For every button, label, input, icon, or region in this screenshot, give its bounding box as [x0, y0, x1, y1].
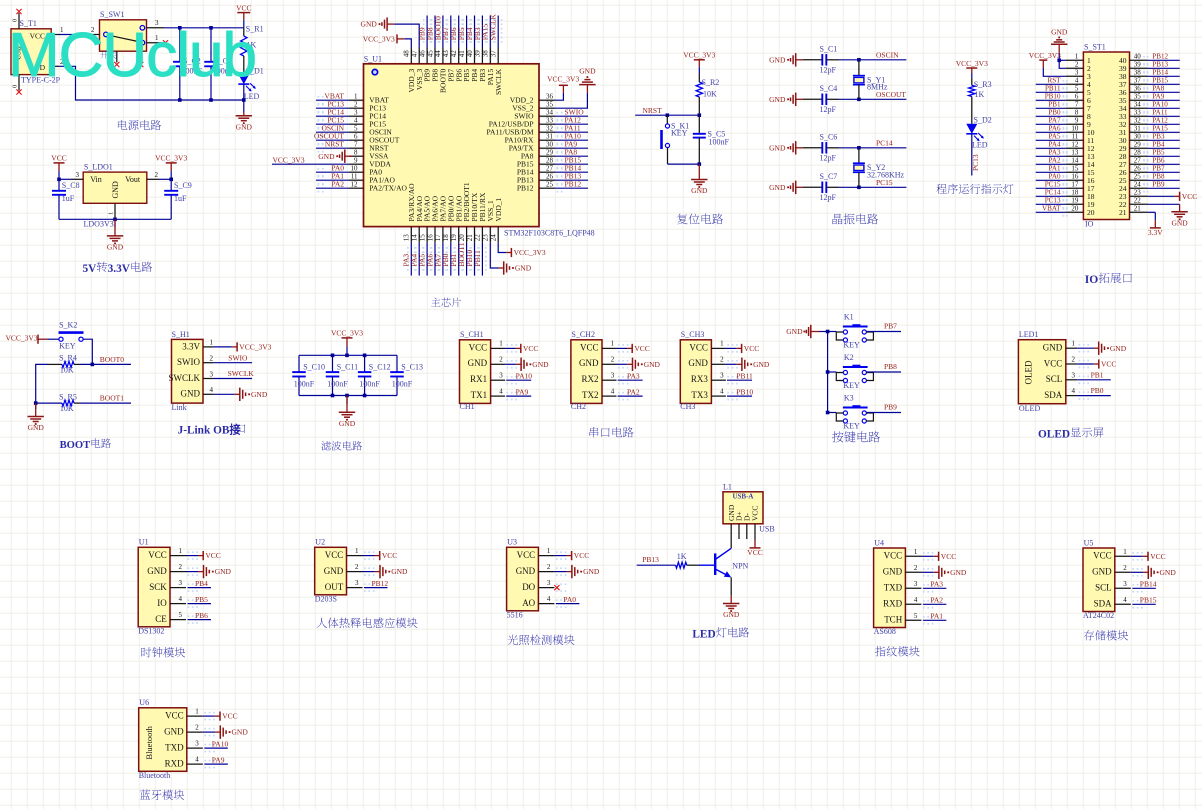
svg-text:S_CH1: S_CH1 — [460, 330, 484, 339]
ST1 pin 23 — [1119, 189, 1148, 202]
wire — [923, 619, 947, 621]
LED S_D1 — [238, 67, 263, 101]
svg-text:PB11: PB11 — [1045, 85, 1061, 93]
svg-text:PA3: PA3 — [930, 580, 943, 589]
wire — [213, 393, 234, 395]
LED S_D2 — [966, 115, 991, 149]
svg-text:VCC_3V3: VCC_3V3 — [273, 156, 305, 165]
wire — [316, 187, 349, 189]
svg-text:RX3: RX3 — [691, 374, 709, 384]
module U1 DS1302 — [138, 538, 170, 636]
wire — [726, 347, 737, 349]
svg-text:PB7: PB7 — [1152, 165, 1165, 173]
svg-text:2: 2 — [195, 724, 199, 732]
crystal S_Y1 8MHz — [853, 60, 888, 100]
svg-text:3: 3 — [720, 372, 724, 380]
svg-text:CH2: CH2 — [571, 402, 586, 411]
resistor S_R1 1K — [241, 25, 264, 75]
wire — [186, 555, 198, 557]
svg-text:U5: U5 — [1084, 538, 1094, 547]
svg-text:PA11: PA11 — [1152, 109, 1168, 117]
svg-text:34: 34 — [1134, 101, 1142, 109]
wire — [410, 243, 412, 276]
svg-text:4: 4 — [195, 756, 199, 764]
svg-text:GND: GND — [769, 55, 786, 64]
svg-text:U4: U4 — [874, 538, 884, 547]
wire — [426, 243, 428, 276]
U1 pin 31 PA10/RX — [505, 132, 555, 144]
U1 pin 30 PA9/TX — [509, 140, 555, 152]
wire — [1036, 211, 1066, 213]
svg-text:6: 6 — [354, 132, 358, 140]
svg-text:GND: GND — [1092, 567, 1112, 577]
svg-text:PB5: PB5 — [195, 595, 208, 604]
title 复位电路 — [677, 214, 687, 225]
capacitor S_C8 1uF — [52, 179, 80, 219]
svg-text:3: 3 — [195, 740, 199, 748]
svg-text:K3: K3 — [844, 394, 854, 403]
power VCC — [747, 541, 762, 557]
U3 pin 1 VCC — [538, 547, 566, 560]
svg-text:GND: GND — [583, 567, 600, 576]
ST1 pin 40 — [1119, 53, 1148, 66]
svg-text:4: 4 — [179, 595, 183, 603]
svg-text:S_C8: S_C8 — [62, 181, 80, 190]
U1 pin 45 PB8 — [426, 48, 439, 82]
wire key to cap bottom — [668, 163, 700, 165]
IC S_U1 STM32F103C8T6_LQFP48 — [364, 55, 595, 238]
svg-text:SWCLK: SWCLK — [489, 13, 498, 40]
U1 pin 35 VSS_2 — [512, 100, 555, 112]
svg-text:U3: U3 — [507, 538, 517, 547]
svg-text:PB13: PB13 — [642, 555, 659, 564]
svg-text:GND: GND — [1110, 344, 1127, 353]
svg-text:1: 1 — [1123, 548, 1127, 556]
svg-text:22: 22 — [474, 234, 482, 242]
svg-text:34: 34 — [546, 108, 554, 116]
svg-text:2: 2 — [355, 563, 359, 571]
wire — [820, 331, 828, 333]
svg-text:PB10: PB10 — [1045, 93, 1061, 101]
junction — [242, 98, 246, 102]
no connect — [554, 585, 559, 590]
power VCC_3V3 — [155, 154, 187, 180]
svg-text:GND: GND — [318, 152, 335, 161]
svg-text:3: 3 — [1075, 69, 1079, 77]
svg-text:12pF: 12pF — [820, 66, 837, 75]
svg-text:27: 27 — [546, 164, 554, 172]
junction — [826, 330, 830, 334]
power VCC_3V3 — [547, 74, 579, 92]
svg-text:4: 4 — [611, 387, 615, 395]
svg-text:VCC_3V3: VCC_3V3 — [155, 154, 187, 163]
pushbutton K2 KEY — [836, 353, 873, 390]
svg-text:44: 44 — [434, 50, 442, 58]
U1 pin 21 PB10/TX — [466, 192, 479, 242]
wire — [828, 331, 837, 333]
power VCC — [1174, 192, 1197, 201]
wire ground rail — [59, 66, 244, 100]
wire left trunk — [36, 364, 48, 403]
svg-text:VCC_3V3: VCC_3V3 — [547, 74, 579, 83]
svg-text:26: 26 — [546, 172, 554, 180]
svg-text:PB0: PB0 — [1091, 386, 1104, 395]
H1 pin 1 — [203, 339, 214, 347]
wire — [418, 243, 420, 276]
svg-text:29: 29 — [1134, 141, 1142, 149]
junction — [666, 113, 670, 117]
wire — [921, 555, 933, 557]
svg-text:VCC_3V3: VCC_3V3 — [363, 34, 395, 43]
svg-text:PB15: PB15 — [1140, 596, 1157, 605]
junction — [857, 146, 861, 150]
U4 pin 2 GND — [905, 564, 933, 577]
svg-text:GND: GND — [688, 358, 708, 368]
wire BOOT1 — [80, 402, 131, 404]
svg-text:VCC: VCC — [747, 548, 762, 557]
svg-text:41: 41 — [458, 50, 466, 58]
ground — [516, 358, 549, 371]
display LED1 OLED — [1018, 330, 1065, 413]
ST1 pin 25 — [1119, 173, 1148, 186]
wire — [1036, 123, 1066, 125]
svg-text:L1: L1 — [723, 482, 732, 491]
power VCC_3V3 — [506, 248, 546, 257]
LDO pin 3 — [71, 171, 83, 179]
svg-text:12pF: 12pF — [820, 105, 837, 114]
wire top rail — [299, 354, 397, 356]
ST1 pin 13 — [1066, 149, 1095, 162]
module U6 Bluetooth — [139, 698, 187, 780]
svg-text:Link: Link — [172, 403, 187, 412]
svg-text:Bluetooth: Bluetooth — [144, 725, 154, 759]
power VCC — [215, 712, 238, 721]
svg-text:S_H1: S_H1 — [172, 330, 190, 339]
wire — [839, 186, 906, 188]
svg-text:AS608: AS608 — [874, 627, 896, 636]
wire — [1036, 179, 1066, 181]
svg-text:GND: GND — [147, 566, 167, 576]
svg-text:STM32F103C8T6_LQFP48: STM32F103C8T6_LQFP48 — [504, 229, 595, 238]
svg-text:PA9: PA9 — [516, 387, 529, 396]
svg-text:S_U1: S_U1 — [364, 55, 382, 64]
svg-text:PA9: PA9 — [212, 755, 225, 764]
ground — [567, 565, 600, 578]
U1 pin 23 VSS_1 — [482, 200, 495, 243]
svg-text:VCC: VCC — [222, 712, 237, 721]
S_CH1 pin 4 — [491, 387, 517, 400]
svg-text:2: 2 — [1075, 61, 1079, 69]
svg-text:30: 30 — [1134, 133, 1142, 141]
ST1 pin 19 — [1066, 197, 1095, 210]
wire — [450, 16, 452, 48]
svg-text:9: 9 — [354, 156, 358, 164]
svg-text:23: 23 — [482, 234, 490, 242]
svg-text:40: 40 — [1134, 53, 1142, 61]
connector S_T1 TYPE-C-2P — [11, 19, 61, 85]
junction — [698, 113, 702, 117]
svg-text:VCC_3V3: VCC_3V3 — [956, 59, 988, 68]
title 电源电路 — [118, 120, 127, 130]
ground — [786, 325, 819, 338]
S_CH1 pin 2 — [491, 356, 517, 369]
H1 pin 4 — [203, 386, 214, 394]
svg-text:25: 25 — [546, 180, 554, 188]
svg-text:LDO3V3: LDO3V3 — [84, 219, 114, 228]
svg-text:24: 24 — [490, 234, 498, 242]
svg-text:CH1: CH1 — [460, 402, 475, 411]
resistor S_R2 10K — [696, 74, 719, 115]
U1 pin 24 VDD_1 — [490, 198, 503, 243]
wire — [1148, 147, 1180, 149]
wire T1 pin1 to SW1 — [59, 34, 84, 36]
connector S_CH2 — [571, 330, 602, 411]
ST1 pin 3 — [1066, 69, 1091, 82]
U1 pin 2 GND — [170, 563, 198, 576]
svg-text:GND: GND — [579, 67, 596, 76]
junction — [209, 98, 213, 102]
wire — [1036, 171, 1066, 173]
capacitor S_C7 12pF — [803, 172, 839, 202]
svg-text:MCUclub: MCUclub — [8, 21, 256, 90]
wire — [618, 395, 643, 397]
U5 pin 4 SDA — [1115, 596, 1143, 609]
wire — [474, 16, 476, 48]
svg-text:48: 48 — [403, 50, 411, 58]
wire — [1148, 171, 1180, 173]
svg-text:11: 11 — [351, 172, 358, 180]
svg-text:27: 27 — [1134, 157, 1142, 165]
svg-text:1: 1 — [1075, 53, 1079, 61]
svg-text:1: 1 — [914, 548, 918, 556]
ground — [361, 17, 395, 30]
svg-text:S_C9: S_C9 — [174, 181, 192, 190]
U1 pin 4 IO — [170, 595, 198, 608]
wire — [203, 731, 215, 733]
ST1 pin 15 — [1066, 165, 1095, 178]
U1 pin 29 PA8 — [521, 148, 555, 160]
wire — [555, 115, 588, 117]
junction — [363, 354, 367, 358]
svg-text:33: 33 — [1134, 109, 1142, 117]
capacitor S_C1 12pF — [803, 45, 839, 75]
wire — [726, 363, 737, 365]
svg-text:AT24C02: AT24C02 — [1083, 611, 1114, 620]
ST1 pin 26 — [1119, 165, 1148, 178]
wire — [434, 243, 436, 276]
U1 pin 47 VSS_3 — [411, 48, 424, 91]
svg-text:5: 5 — [914, 612, 918, 620]
svg-text:PA8: PA8 — [1152, 85, 1164, 93]
power VCC — [627, 344, 650, 353]
connector S_CH3 — [680, 330, 711, 411]
U1 pin 20 PB2/BOOT1 — [458, 182, 471, 243]
wire — [839, 147, 906, 149]
T1 pin 0 top (unused) — [12, 9, 22, 29]
wire — [1148, 91, 1180, 93]
L1 pin GND — [730, 524, 732, 549]
svg-text:8: 8 — [354, 148, 358, 156]
U1 pin 9 VDDA — [349, 156, 392, 168]
svg-text:TX2: TX2 — [582, 390, 599, 400]
svg-text:DS1302: DS1302 — [138, 626, 164, 635]
svg-text:VCC_3V3: VCC_3V3 — [1029, 51, 1061, 60]
wire — [442, 16, 444, 48]
wire — [186, 571, 198, 573]
svg-text:40: 40 — [466, 50, 474, 58]
svg-text:PB12: PB12 — [517, 184, 534, 193]
wire — [450, 243, 452, 276]
U1 pin 22 PB11/RX — [474, 192, 487, 243]
svg-text:PB1: PB1 — [1091, 370, 1104, 379]
svg-text:4: 4 — [914, 596, 918, 604]
svg-text:PB15: PB15 — [1152, 77, 1168, 85]
svg-text:5: 5 — [179, 611, 183, 619]
resistor S_R4 10K — [48, 354, 80, 375]
svg-text:GND: GND — [532, 360, 549, 369]
ground — [769, 141, 803, 154]
wire — [188, 619, 212, 621]
svg-text:PC15: PC15 — [1045, 181, 1061, 189]
switch S_SW1 — [100, 10, 147, 59]
U1 pin 11 PA1/AO — [349, 172, 395, 184]
svg-text:PA10: PA10 — [212, 739, 229, 748]
svg-text:3: 3 — [1072, 371, 1076, 379]
ground (ST1 pins 1,2) — [1051, 27, 1068, 60]
capacitor S_C3 100nF — [204, 28, 233, 100]
svg-text:PA3: PA3 — [1049, 149, 1061, 157]
svg-text:12: 12 — [351, 180, 359, 188]
ST1 pin 2 — [1066, 61, 1091, 74]
wire — [497, 16, 499, 48]
U1 pin 28 PB15 — [517, 156, 555, 168]
wire VSS_2 — [555, 93, 587, 108]
svg-text:SWCLK: SWCLK — [169, 373, 201, 383]
wire — [1132, 603, 1156, 605]
wire — [839, 59, 906, 61]
svg-text:10K: 10K — [60, 365, 74, 374]
power 3.3V — [1148, 212, 1163, 237]
svg-text:1: 1 — [1072, 340, 1076, 348]
U1 pin 5 OSCIN — [349, 124, 392, 136]
resistor 1K — [676, 552, 699, 568]
ST1 pin 30 — [1119, 133, 1148, 146]
junction — [178, 98, 182, 102]
capacitor S_C9 1uF — [164, 179, 192, 219]
svg-text:S_SW1: S_SW1 — [100, 10, 124, 19]
svg-text:100nF: 100nF — [359, 379, 380, 388]
S_CH3 pin 1 — [711, 340, 737, 353]
svg-text:36: 36 — [1134, 85, 1142, 93]
svg-text:18: 18 — [1071, 189, 1079, 197]
ST1 pin 11 — [1066, 133, 1095, 146]
capacitor S_C13 100nF — [390, 355, 423, 395]
svg-text:RST: RST — [1047, 77, 1061, 85]
U1 pin 37 SWCLK — [490, 48, 503, 96]
wire — [188, 603, 212, 605]
crystal S_Y2 32.768KHz — [853, 148, 905, 188]
svg-text:PA5: PA5 — [1049, 133, 1061, 141]
svg-text:VDD_1: VDD_1 — [494, 198, 503, 222]
svg-text:GND: GND — [339, 419, 356, 428]
svg-text:VCC: VCC — [382, 551, 397, 560]
svg-text:IO: IO — [157, 598, 167, 608]
U1 pin 33 PA12/USB/DP — [489, 116, 555, 128]
wire — [923, 587, 947, 589]
S_CH3 pin 3 — [711, 372, 737, 385]
svg-text:LED: LED — [692, 629, 715, 641]
wire — [1148, 203, 1180, 205]
U1 pin 8 VSSA — [349, 148, 389, 160]
U1 pin 2 PC13 — [349, 100, 386, 112]
svg-text:10: 10 — [1071, 125, 1079, 133]
svg-text:S_CH2: S_CH2 — [571, 330, 595, 339]
svg-text:GND: GND — [1051, 27, 1068, 36]
svg-text:IO: IO — [1085, 219, 1094, 228]
S_CH2 pin 2 — [602, 356, 628, 369]
wire VDDA — [272, 163, 349, 165]
ground — [691, 164, 708, 195]
svg-text:USB: USB — [759, 525, 775, 534]
svg-text:4: 4 — [354, 116, 358, 124]
SW1 unused bottom pins — [114, 51, 143, 67]
svg-text:17: 17 — [1071, 181, 1079, 189]
svg-text:12pF: 12pF — [820, 193, 837, 202]
capacitor S_C10 100nF — [292, 355, 325, 395]
wire BOOT0 — [80, 363, 131, 365]
ST1 pin 35 — [1119, 93, 1148, 106]
wire SW1 pin3 to VCC rail — [164, 27, 244, 29]
wire — [555, 139, 588, 141]
wire — [1077, 395, 1111, 397]
svg-text:1: 1 — [195, 708, 199, 716]
U1 pin 36 VDD_2 — [510, 92, 555, 104]
wire — [1036, 203, 1066, 205]
ground — [769, 53, 803, 66]
svg-text:GND: GND — [950, 568, 967, 577]
svg-text:S_R3: S_R3 — [974, 80, 992, 89]
svg-text:VCC_3V3: VCC_3V3 — [239, 343, 271, 352]
LED1 pin 3 — [1066, 371, 1089, 384]
wire — [866, 331, 901, 333]
svg-text:SCL: SCL — [1046, 374, 1063, 384]
svg-text:4: 4 — [499, 387, 503, 395]
svg-text:3: 3 — [1123, 580, 1127, 588]
svg-text:PA6: PA6 — [1049, 125, 1061, 133]
svg-text:5: 5 — [1075, 85, 1079, 93]
svg-text:KEY: KEY — [843, 381, 860, 390]
junction — [345, 354, 349, 358]
power VCC — [933, 552, 956, 561]
U2 pin 3 OUT — [347, 579, 375, 592]
module U2 D203S — [315, 538, 347, 604]
ST1 pin 27 — [1119, 157, 1148, 170]
svg-text:15: 15 — [1071, 165, 1079, 173]
svg-text:8: 8 — [1075, 109, 1079, 117]
svg-text:3: 3 — [76, 171, 80, 179]
power VCC_3V3 — [956, 59, 988, 78]
svg-text:4: 4 — [1123, 596, 1127, 604]
wire — [1036, 107, 1066, 109]
svg-text:2: 2 — [914, 564, 918, 572]
svg-text:1: 1 — [720, 340, 724, 348]
wire — [1036, 163, 1066, 165]
svg-text:19: 19 — [1071, 197, 1079, 205]
wire bottom rail — [299, 395, 397, 397]
svg-text:S_R2: S_R2 — [702, 78, 720, 87]
svg-text:3: 3 — [547, 579, 551, 587]
svg-text:TXD: TXD — [884, 583, 903, 593]
